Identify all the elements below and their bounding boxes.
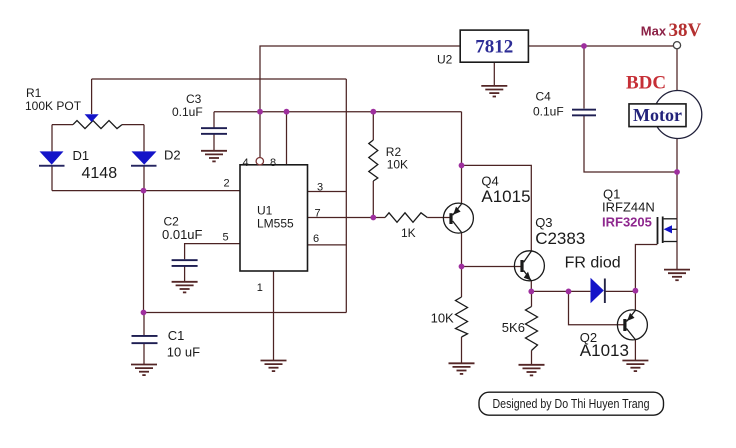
- junction dot pin7/R2/1K: [370, 215, 376, 221]
- wire: pot wiper stem: [91, 79, 93, 114]
- junction dot C4/drain node: [674, 169, 680, 175]
- resistor 5K6: [526, 307, 538, 351]
- wire: FR anode down to Q2 base: [569, 291, 624, 324]
- ground for 5K6: [519, 365, 545, 376]
- junction dot 38V/C4: [581, 43, 587, 49]
- MOSFET Q1 gate bar: [657, 217, 659, 244]
- transistor Q3 collector diagonal: [524, 251, 532, 262]
- transistor Q3 emitter diagonal: [524, 271, 532, 281]
- svg-text:BDC: BDC: [626, 73, 666, 94]
- junction dot D2/rail: [141, 188, 147, 194]
- wire: diode rail to U1 pin2: [52, 190, 240, 192]
- junction dot Q3 emitter node: [528, 289, 534, 295]
- motor circle: [654, 91, 702, 139]
- MOSFET Q1 channel bar: [662, 217, 664, 244]
- svg-text:U1: U1: [257, 204, 273, 218]
- svg-text:A1015: A1015: [481, 187, 530, 206]
- wire: left rail down to C1 node: [143, 191, 145, 313]
- wire: Q4 node to Q3 collector: [462, 165, 532, 251]
- svg-text:38V: 38V: [669, 20, 702, 41]
- svg-text:A1013: A1013: [580, 341, 629, 360]
- junction dot FR cathode/gate node: [633, 288, 639, 294]
- wire: C1 leads: [143, 313, 145, 365]
- resistor 10K (lower): [456, 297, 468, 337]
- ground for 10K: [449, 363, 475, 374]
- capacitor C3: [201, 127, 227, 129]
- svg-text:C3: C3: [186, 92, 202, 106]
- junction dot 12V/R2: [370, 109, 376, 115]
- svg-text:IRFZ44N: IRFZ44N: [602, 200, 655, 215]
- wire: motor bottom to Q1 drain and ground: [676, 139, 678, 270]
- pin 4 terminal circle: [256, 158, 263, 165]
- wire: pin6 stub: [308, 244, 347, 246]
- wire: C4 bottom to drain node: [584, 116, 677, 173]
- resistor R1 wiper arrow: [85, 114, 99, 122]
- svg-text:0.1uF: 0.1uF: [533, 105, 564, 119]
- ground for Q2: [622, 361, 648, 372]
- transistor Q4 circle: [443, 203, 473, 233]
- junction dot 12V/pin8: [284, 109, 290, 115]
- svg-text:0.1uF: 0.1uF: [172, 105, 203, 119]
- resistor 1K: [385, 213, 427, 223]
- wire: D2 branch: [143, 125, 145, 191]
- svg-text:0.01uF: 0.01uF: [162, 227, 203, 242]
- diode FR (freewheel): [591, 278, 604, 304]
- transistor Q2 circle: [617, 310, 647, 340]
- designer name box: [479, 392, 664, 415]
- wire: 38V rail to C4 top: [583, 46, 585, 109]
- transistor Q2 base bar: [623, 319, 626, 331]
- svg-text:D2: D2: [164, 148, 181, 163]
- wire: pin8 feed: [286, 112, 288, 165]
- wire: 10K bottom to ground: [461, 337, 463, 363]
- svg-text:Designed by Do Thi Huyen Trang: Designed by Do Thi Huyen Trang: [493, 396, 650, 411]
- MOSFET Q1 drain stub: [664, 218, 677, 220]
- wire: Q4 emitter lead: [461, 165, 463, 203]
- wire: pin1 to ground: [273, 271, 275, 360]
- svg-text:100K POT: 100K POT: [25, 99, 82, 113]
- ground for C2: [172, 282, 198, 293]
- svg-text:IRF3205: IRF3205: [602, 215, 652, 230]
- svg-text:C2383: C2383: [535, 229, 585, 248]
- wire: Q2 emitter up to gate node: [634, 291, 636, 311]
- junction dot Q4 emitter node: [459, 163, 465, 169]
- svg-text:Motor: Motor: [633, 105, 682, 125]
- diode D2: [132, 151, 157, 164]
- svg-text:4: 4: [243, 157, 249, 169]
- transistor Q2 emitter diagonal: [627, 310, 636, 321]
- wire: pot end leads: [52, 124, 144, 126]
- transistor Q2 collector diagonal: [627, 329, 636, 340]
- wire: U2 ground stem: [493, 62, 495, 85]
- transistor Q3 circle: [514, 251, 544, 281]
- resistor R1 potentiometer body: [73, 121, 122, 129]
- wire: Q2 collector to ground: [634, 340, 636, 360]
- resistor R2: [369, 140, 378, 181]
- svg-text:R1: R1: [26, 86, 42, 100]
- wire: C3 leads: [213, 112, 215, 151]
- svg-text:6: 6: [313, 233, 319, 245]
- wire: U2 input to Max38V terminal: [529, 45, 674, 47]
- svg-text:1: 1: [257, 282, 263, 294]
- svg-text:7812: 7812: [475, 36, 513, 57]
- regulator U2 7812 box: [460, 30, 528, 62]
- svg-text:10K: 10K: [431, 310, 454, 325]
- ground for Q1 source: [664, 270, 690, 281]
- transistor Q4 base bar: [449, 213, 452, 224]
- svg-text:10K: 10K: [387, 158, 408, 172]
- wire: 1K to Q4 base: [427, 217, 449, 219]
- MOSFET Q1 source stub: [664, 241, 677, 243]
- wire: pot wiper rail to pin3 vertical: [92, 78, 347, 80]
- svg-text:1K: 1K: [401, 226, 416, 240]
- svg-text:4148: 4148: [82, 165, 118, 182]
- wire: Q3 emitter node and FR diode rail: [531, 281, 635, 292]
- capacitor C4: [572, 109, 596, 111]
- junction dot C1/ground rail: [141, 310, 147, 316]
- wire: Q4 collector node to Q3 base: [462, 266, 521, 268]
- terminal Max 38V: [673, 42, 680, 49]
- svg-text:Q3: Q3: [535, 215, 552, 230]
- IC U1 LM555 box: [240, 165, 308, 271]
- ground for C3: [201, 151, 227, 162]
- wire: U2 output to U1 pin4 (12V feed): [260, 46, 460, 157]
- diode D1: [40, 151, 64, 164]
- ground for U2: [481, 86, 507, 97]
- transistor Q2 emitter arrow (PNP): [627, 313, 634, 321]
- junction dot Q4 collector node: [459, 264, 465, 270]
- svg-text:3: 3: [317, 182, 323, 194]
- svg-text:7: 7: [315, 208, 321, 220]
- wire: R2 leads: [372, 112, 374, 218]
- ground for C1: [131, 365, 157, 376]
- transistor Q3 emitter arrow (NPN): [524, 272, 531, 281]
- svg-text:10 uF: 10 uF: [167, 345, 200, 360]
- transistor Q4 emitter arrow (PNP): [453, 207, 460, 215]
- svg-text:5K6: 5K6: [502, 320, 525, 335]
- junction dot FR anode node: [566, 289, 572, 295]
- svg-text:2: 2: [224, 178, 230, 190]
- transistor Q3 base bar: [520, 260, 523, 272]
- wire: 5K6 leads: [531, 291, 533, 364]
- MOSFET Q1 substrate stub: [672, 228, 677, 230]
- transistor Q4 collector diagonal: [453, 221, 462, 232]
- wire: Q4 collector to 10K: [461, 233, 463, 297]
- wire: mid ground rail: [144, 312, 347, 314]
- wire: gate node up to Q1 gate: [635, 245, 657, 291]
- MOSFET Q1 substrate arrow: [664, 225, 672, 233]
- svg-text:U2: U2: [437, 53, 453, 67]
- svg-text:D1: D1: [73, 148, 90, 163]
- svg-text:8: 8: [270, 157, 276, 169]
- svg-text:Max: Max: [641, 23, 667, 38]
- wire: pin3 stub: [308, 191, 347, 193]
- ground for pin1: [261, 361, 287, 372]
- wire: pin3/pin6 vertical to ground rail: [345, 79, 347, 313]
- capacitor C2: [172, 259, 198, 261]
- wire: 12V rail (C3 to Q4 corner): [214, 111, 462, 113]
- junction dot 12V/pin4: [257, 109, 263, 115]
- transistor Q4 emitter diagonal: [453, 204, 462, 215]
- svg-text:C1: C1: [168, 328, 185, 343]
- svg-text:LM555: LM555: [257, 217, 294, 231]
- wire: 12V rail down to Q4 emitter node: [461, 112, 463, 166]
- motor label box: [629, 104, 686, 127]
- svg-text:FR diod: FR diod: [565, 255, 621, 272]
- svg-text:5: 5: [223, 232, 229, 244]
- capacitor C1: [132, 335, 158, 337]
- wire: pin5 to C2: [185, 244, 240, 282]
- wire: D1 branch: [51, 125, 53, 191]
- wire: pin7 stub to 1K: [308, 217, 386, 219]
- wire: terminal to motor top: [676, 49, 678, 91]
- svg-text:C4: C4: [536, 89, 552, 103]
